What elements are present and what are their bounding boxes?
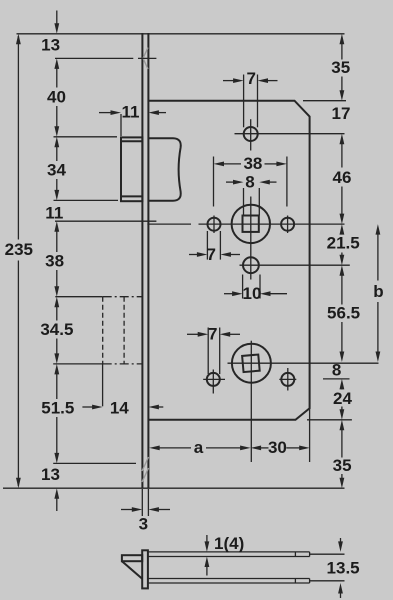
left chain arrows x=56.8 [54, 11, 59, 512]
lock case outline [148, 101, 309, 420]
svg-text:34.5: 34.5 [40, 320, 73, 339]
lower right fixing hole [281, 373, 294, 386]
svg-text:3: 3 [139, 515, 148, 534]
faceplate (front view, long vertical plate) [142, 33, 148, 488]
left extension line 13/40 boundary [55, 57, 133, 59]
svg-text:17: 17 [332, 104, 351, 123]
svg-text:24: 24 [333, 389, 352, 408]
upper spindle hole [232, 205, 270, 243]
dim 8 arrows [226, 180, 277, 185]
dim 14 leader line [102, 364, 104, 406]
dim 11 latch: arrows and extension [99, 110, 166, 136]
svg-text:38: 38 [243, 154, 262, 173]
svg-text:7: 7 [208, 324, 217, 343]
dim 235 chain line [16, 34, 21, 488]
lower spindle square (slightly rotated) [242, 355, 260, 373]
svg-text:1(4): 1(4) [214, 534, 244, 553]
left extension line 34/11 boundary [54, 199, 119, 201]
dim 38 extension lines [213, 157, 215, 207]
dim 7 lower hole: arrows [187, 332, 240, 337]
dim 7 (top) extension lines [243, 75, 245, 128]
dim 8 extension lines [243, 188, 245, 215]
dim 10 extension lines [242, 275, 244, 299]
svg-text:14: 14 [110, 398, 129, 417]
dim 7 upper hole: arrows [189, 252, 240, 257]
deadbolt pocket dashed outline [103, 297, 143, 364]
svg-text:51.5: 51.5 [41, 398, 74, 417]
latch bolt head (protruding left of faceplate) [121, 137, 142, 201]
left extension line 40/34 boundary [54, 136, 118, 138]
bottom view faceplate bar [142, 550, 148, 588]
bottom view case top plate [148, 552, 310, 557]
svg-text:235: 235 [5, 240, 33, 259]
left extension line 38/34.5 boundary [55, 296, 102, 298]
svg-text:10: 10 [243, 284, 262, 303]
svg-text:7: 7 [206, 245, 215, 264]
case bottom extension line [307, 419, 352, 421]
top face line [17, 33, 345, 35]
bottom view bottom extension line [310, 580, 345, 582]
bottom view top extension line [310, 553, 345, 555]
lower spindle vertical centerline [250, 341, 252, 462]
svg-text:7: 7 [246, 69, 255, 88]
dim 38 line and arrows [214, 162, 287, 167]
dim 3: extension lines and arrows [121, 489, 170, 516]
dim 7 (lower hole) extension lines [207, 328, 209, 375]
svg-text:30: 30 [268, 438, 287, 457]
left extension line 11/38 boundary [55, 220, 156, 222]
middle hole horizontal centerline [240, 264, 350, 266]
svg-text:8: 8 [332, 361, 341, 380]
dim 10 arrows [224, 291, 287, 296]
top cylinder screw hole [244, 127, 258, 141]
svg-text:8: 8 [245, 172, 254, 191]
lower follower centerline horizontal [228, 362, 379, 364]
left extension line 51.5/13 boundary [53, 462, 136, 464]
svg-text:35: 35 [331, 58, 350, 77]
svg-text:35: 35 [333, 456, 352, 475]
top hole vertical centerline [250, 119, 252, 150]
faceplate break mark lower [142, 457, 149, 482]
svg-text:40: 40 [47, 87, 66, 106]
latch bolt body (inside case, concave tail) [148, 138, 180, 201]
svg-text:b: b [373, 282, 383, 301]
svg-text:46: 46 [333, 168, 352, 187]
faceplate break mark upper [143, 48, 148, 69]
case top extension line [303, 100, 346, 102]
lower spindle hole [232, 344, 271, 383]
svg-text:11: 11 [45, 204, 63, 223]
upper follower centerline horizontal [147, 223, 191, 225]
middle cylinder hole [243, 257, 259, 273]
bottom view latch wedge strip [122, 555, 142, 561]
upper spindle vertical centerline [250, 197, 252, 280]
svg-text:56.5: 56.5 [327, 304, 360, 323]
bottom view latch wedge hypotenuse [122, 561, 142, 579]
bottom base line [3, 487, 345, 489]
svg-text:38: 38 [45, 252, 64, 271]
dim 14 arrows [82, 405, 163, 410]
dim 7 top: arrows [223, 78, 278, 83]
svg-text:a: a [194, 438, 204, 457]
right chain arrows x=341.9 [340, 34, 345, 488]
upper left fixing hole [208, 218, 221, 231]
svg-text:11: 11 [122, 103, 140, 122]
svg-text:13: 13 [41, 465, 60, 484]
dim b chain [376, 224, 381, 362]
lower left fixing hole [207, 373, 220, 386]
top hole horizontal centerline [235, 133, 345, 135]
upper spindle square [243, 216, 259, 232]
dim 1(4) arrows [205, 535, 210, 576]
dim a / dim 30 lines and arrows [149, 446, 310, 451]
dim 7 (upper hole) extension lines [206, 231, 208, 260]
bottom view case bottom plate [148, 579, 310, 584]
upper right fixing hole [281, 218, 294, 231]
svg-text:13: 13 [41, 36, 60, 55]
case right edge extension [309, 408, 311, 462]
dim 13.5 arrows [338, 538, 343, 598]
svg-text:13.5: 13.5 [327, 559, 360, 578]
svg-text:21.5: 21.5 [327, 233, 360, 252]
lower holes centerline extension (dim 8 right) [323, 378, 350, 380]
left extension line 34.5/51.5 boundary [53, 363, 102, 365]
svg-text:34: 34 [47, 160, 66, 179]
